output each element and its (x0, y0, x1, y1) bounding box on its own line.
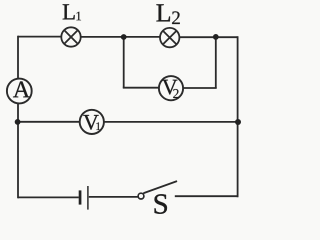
voltmeter V1 (80, 110, 104, 134)
switch S pivot (138, 193, 144, 199)
ammeter A (7, 79, 32, 104)
wire left vertical lower (ammeter to bottom corner) (17, 104, 19, 199)
battery cell (79, 186, 88, 210)
label L2 (156, 4, 170, 21)
wire V2 branch left horizontal (123, 87, 160, 89)
wire top middle (L1 to L2) (81, 36, 160, 38)
lamp L2 (160, 28, 179, 47)
label S (155, 194, 167, 213)
wire V2 branch right vertical (215, 37, 217, 88)
wire V1 row right (V1 to right node) (104, 121, 238, 123)
wire top right (L2 to top-right corner) (180, 36, 238, 38)
wire V1 row left (node to V1) (18, 121, 80, 123)
node dot right V1 junction (235, 119, 241, 125)
wire battery to switch (89, 196, 138, 198)
switch S lever (144, 181, 176, 193)
wire switch to bottom-right corner (175, 195, 238, 197)
wire bottom left (corner to battery) (18, 196, 79, 198)
wire left vertical upper (corner to ammeter) (17, 36, 19, 79)
label L1 (63, 4, 75, 19)
wire V2 branch left vertical (123, 37, 125, 88)
lamp L1 (61, 27, 80, 46)
node dot top-left junction (121, 34, 127, 40)
node dot left V1 junction (15, 119, 21, 125)
wire top-left horizontal (corner to L1) (18, 36, 62, 38)
wire right vertical (237, 36, 239, 197)
voltmeter V2 (159, 76, 183, 100)
wire V2 branch right horizontal (183, 87, 217, 89)
node dot top-right junction (213, 34, 219, 40)
